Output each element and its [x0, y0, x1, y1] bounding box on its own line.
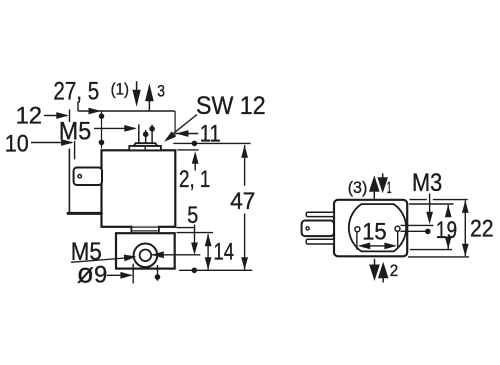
svg-text:27, 5: 27, 5 — [53, 77, 99, 105]
hole leader lower line with dot — [401, 230, 426, 232]
dim 22 line — [464, 200, 466, 256]
dim 47 arrow up — [241, 145, 248, 158]
hex nut SW12 trapezoid — [134, 143, 158, 146]
coil cross-section inner shape — [349, 204, 406, 251]
svg-text:12: 12 — [16, 102, 42, 129]
dim 10 arrowhead — [61, 139, 74, 146]
dim 19 line lower — [447, 242, 449, 249]
bottom reference line with dot — [179, 269, 252, 271]
neck left line between body and block — [130, 227, 132, 233]
svg-text:22: 22 — [470, 216, 494, 243]
M3 arrowhead down — [426, 212, 433, 225]
dim 5 stem and arrow down to port centerline — [194, 225, 196, 244]
port 1 flow arrow down — [136, 81, 138, 93]
dia9 leader line — [107, 274, 131, 276]
SW 12 leader arrowhead — [164, 131, 176, 142]
svg-text:1: 1 — [387, 179, 392, 197]
dim 12 extension tick — [69, 110, 71, 123]
hole leader upper line — [401, 224, 434, 226]
dim 47 vertical line lower — [244, 214, 246, 270]
dim 19 arrow down — [445, 237, 452, 250]
dim 11 leader line — [176, 133, 198, 135]
port 2 arrow down (below right view) — [374, 259, 376, 265]
extension line body right edge — [174, 111, 176, 137]
spade terminal tab — [74, 168, 102, 186]
M3 leader stem — [429, 194, 431, 213]
svg-text:SW 12: SW 12 — [196, 92, 266, 120]
dim 19 bottom tick — [410, 249, 452, 251]
neck right line between body and block — [158, 227, 160, 233]
body bottom reference line — [177, 227, 196, 229]
hex nut flange center split — [144, 146, 146, 150]
dim 47 arrow down — [241, 257, 248, 270]
spade terminal hole — [78, 175, 81, 178]
svg-text:14: 14 — [214, 239, 235, 266]
dim 27,5 leader drop — [77, 102, 79, 112]
right view body rounded rect — [334, 200, 407, 256]
pin line 2 with dot — [145, 130, 147, 143]
dia9 arrowhead — [120, 272, 132, 279]
dim 12 leader line — [44, 115, 67, 117]
svg-text:(3): (3) — [348, 179, 368, 197]
dim 14 arrow up — [205, 234, 212, 247]
connector pin bottom — [306, 239, 334, 244]
connector housing left face — [68, 149, 70, 213]
svg-text:2, 1: 2, 1 — [179, 166, 210, 193]
dim 15 double arrow — [370, 245, 386, 247]
dim 22 bottom tick — [408, 256, 469, 258]
svg-text:47: 47 — [230, 188, 255, 215]
dia9 left extension line — [132, 264, 134, 284]
dim 10 extension tick — [74, 141, 76, 159]
svg-text:5: 5 — [187, 202, 198, 229]
port boss outer circle — [134, 244, 158, 268]
port 1 flow arrow down (right view) — [382, 173, 384, 179]
nut top reference line with dot — [173, 142, 250, 144]
M5 top arrowhead — [124, 125, 137, 132]
port M5 inner circle — [140, 250, 152, 262]
dim 22 arrow down — [462, 244, 469, 256]
M5 bottom arrowhead at port circle — [124, 255, 137, 262]
dia9 right extension line with dot — [157, 265, 159, 281]
svg-text:ø9: ø9 — [77, 258, 108, 289]
dim 22 arrow up — [462, 200, 469, 213]
svg-text:(1): (1) — [111, 80, 129, 98]
extension line body left edge with dots — [101, 111, 103, 149]
dim 19 top tick — [409, 203, 454, 205]
svg-text:2: 2 — [390, 262, 399, 280]
M5 top leader line — [94, 127, 135, 129]
connector tab hole — [306, 227, 309, 230]
port 3 flow arrow up — [145, 83, 154, 101]
hex nut SW12 flange on body top — [129, 146, 161, 150]
hole drop line left — [356, 232, 358, 250]
dim 10 leader line — [31, 142, 72, 144]
port 3 flow arrow up (right view) — [369, 175, 380, 192]
dim 47 vertical line upper — [244, 145, 246, 186]
dim 19 line upper — [447, 205, 449, 217]
neck area white-out of thick body bottom edge — [132, 226, 157, 229]
dim 14 arrow down — [205, 257, 212, 270]
svg-text:15: 15 — [362, 219, 387, 246]
neck bottom thin line — [132, 230, 157, 232]
body top reference line — [177, 149, 198, 151]
mounting hole left — [355, 227, 360, 232]
SW 12 leader line — [167, 115, 198, 140]
mounting hole right — [395, 226, 400, 231]
dim 27,5 dimension line — [78, 110, 175, 112]
dim 27,5 arrowhead at body left plane — [89, 108, 102, 115]
hole drop line right — [397, 231, 399, 248]
pin line 1 (M5 pointer target) — [138, 124, 140, 143]
pin line 3 with dot — [151, 125, 153, 143]
port 2 arrow up (below right view) — [378, 262, 389, 279]
svg-text:M3: M3 — [412, 169, 442, 197]
dim 14 vertical line — [207, 234, 209, 269]
connector pin top — [306, 212, 334, 216]
dim 19 arrow up — [445, 205, 452, 218]
dim 11 arrowhead — [176, 130, 189, 137]
coil body outline (side view) — [102, 150, 176, 227]
svg-text:3: 3 — [157, 83, 165, 101]
svg-text:10: 10 — [5, 130, 29, 157]
dim 22 top tick (gap at M3 stem) — [410, 199, 427, 201]
svg-text:19: 19 — [436, 217, 457, 244]
block top reference line — [177, 232, 214, 234]
M5 bottom leader line — [71, 258, 125, 262]
neck top thin line — [132, 226, 157, 228]
dim 2,1 arrow up — [192, 151, 199, 164]
port centerline extension right with arrowhead at circle — [151, 254, 200, 256]
connector base flange (thick) — [68, 212, 101, 215]
connector tab middle — [302, 221, 334, 237]
lower valve block — [116, 233, 175, 268]
dim 12 arrowhead — [56, 112, 69, 119]
